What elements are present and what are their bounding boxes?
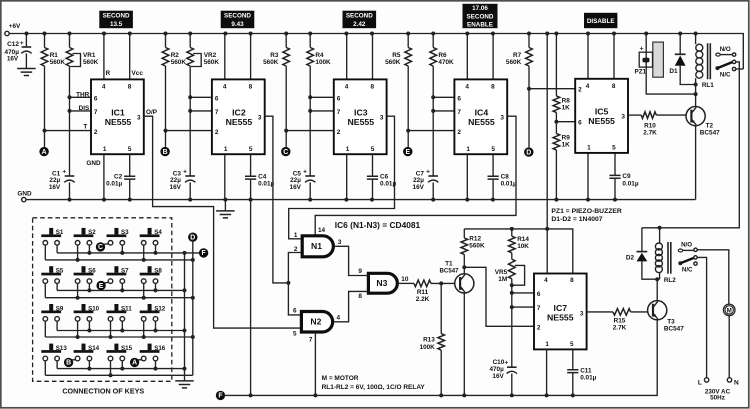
svg-text:R2: R2 — [171, 52, 180, 59]
svg-text:+6V: +6V — [9, 23, 21, 30]
N terminal — [727, 378, 731, 382]
wire: IC4 pin4 to +6V rail — [466, 34, 468, 80]
wire: trigger pin2 line IC1 — [45, 130, 92, 132]
resistor R2 560K — [165, 34, 167, 48]
svg-text:RL1-RL2 = 6V, 100Ω, 1C/O RELAY: RL1-RL2 = 6V, 100Ω, 1C/O RELAY — [322, 384, 426, 391]
svg-text:560K: 560K — [171, 59, 187, 66]
capacitor C12 (470u 16V) with ground — [25, 34, 27, 48]
svg-text:C9: C9 — [622, 173, 631, 180]
capacitor C7 (22u 16V) — [428, 175, 438, 177]
AND gate N1 (CD4081) — [302, 236, 333, 257]
svg-text:2.42: 2.42 — [353, 21, 366, 28]
switch S9 — [49, 304, 53, 311]
svg-text:C12: C12 — [7, 41, 19, 48]
wire: R9 to ground rail — [555, 150, 557, 200]
wire: S13 right terminal drop — [56, 361, 58, 369]
svg-text:560K: 560K — [204, 59, 220, 66]
wire: +6V column from rail to IC7 pin4 — [546, 34, 548, 274]
svg-text:N/C: N/C — [682, 267, 693, 274]
ground symbol near IC2 pin1 — [224, 200, 226, 211]
wire: bottom ground rail to T3 emitter — [225, 320, 657, 396]
svg-text:NE555: NE555 — [547, 313, 574, 323]
svg-text:8: 8 — [570, 277, 574, 284]
label box SECOND 2.42 — [343, 11, 377, 29]
svg-text:VR5: VR5 — [495, 269, 508, 276]
svg-text:C11: C11 — [580, 367, 592, 374]
svg-text:4: 4 — [345, 83, 349, 90]
wire: IC3 output across to N1 pin1 — [289, 116, 395, 239]
svg-text:R9: R9 — [562, 135, 571, 142]
wire: THR pin6 line IC4 — [433, 96, 454, 98]
wire: IC7 pin5 via C11 — [572, 349, 574, 369]
wire: S6 left terminal drop — [77, 283, 79, 297]
wire: branch to N1 pin2 — [288, 253, 302, 283]
svg-text:R15: R15 — [614, 318, 626, 325]
resistor R7 560K — [528, 34, 530, 48]
svg-text:4: 4 — [337, 315, 341, 322]
svg-text:VR2: VR2 — [204, 52, 217, 59]
op-amp/timer IC3 NE555 box — [334, 79, 387, 154]
svg-text:560K: 560K — [263, 59, 279, 66]
svg-text:N2: N2 — [310, 316, 321, 326]
svg-text:R7: R7 — [513, 52, 522, 59]
wire: IC1 pin8 to +6V rail — [129, 34, 131, 80]
timer IC7 NE555 box — [534, 274, 587, 350]
svg-text:4: 4 — [223, 83, 227, 90]
switch S10 — [82, 304, 86, 311]
wire: IC2 pin4 to +6V rail — [224, 34, 226, 80]
op-amp/timer IC4 NE555 box — [454, 79, 507, 154]
svg-text:9.43: 9.43 — [231, 21, 244, 28]
switch S11 — [114, 304, 118, 311]
svg-text:S7: S7 — [121, 268, 129, 275]
wire: motor to N terminal — [728, 316, 730, 378]
svg-text:4: 4 — [586, 83, 590, 90]
node C — [281, 147, 290, 156]
svg-text:560K: 560K — [469, 242, 485, 249]
wire: trigger pin2 line IC3 — [286, 130, 334, 132]
svg-text:6: 6 — [537, 291, 541, 298]
switch S1 — [49, 228, 53, 235]
svg-text:3: 3 — [338, 239, 342, 246]
svg-text:2: 2 — [337, 129, 341, 136]
svg-text:NE555: NE555 — [226, 117, 253, 127]
wire: IC4 output across to N1 pin14 — [315, 116, 516, 235]
svg-text:D: D — [526, 149, 531, 156]
pot wiper of VR5 — [512, 265, 525, 285]
svg-text:GND: GND — [86, 160, 101, 167]
wire: IC4 pin8 to +6V rail — [492, 34, 494, 80]
wire: S4 right terminal drop — [155, 245, 157, 253]
wire: S15 right terminal drop — [121, 361, 123, 369]
svg-text:5: 5 — [491, 146, 495, 153]
wire: R6 column down through THR/DIS junctions to C7 — [432, 66, 434, 176]
node E (keypad tap S7) — [96, 281, 105, 290]
wire: ground rail link down to bottom rail — [250, 200, 252, 396]
wire: IC3 pin4 to +6V rail — [346, 34, 348, 80]
svg-text:CONNECTION OF KEYS: CONNECTION OF KEYS — [62, 386, 144, 395]
wire: S5 left terminal drop — [44, 283, 46, 297]
svg-text:F: F — [201, 250, 205, 257]
node A (keypad tap S16) — [130, 358, 139, 367]
svg-text:3: 3 — [500, 115, 504, 122]
wire: keypad row 4 right-terminal bus — [57, 368, 184, 370]
svg-text:Vcc: Vcc — [132, 70, 144, 77]
switch S3 — [114, 228, 118, 235]
resistor R6 470K — [432, 34, 434, 48]
capacitor C10 (470u 16V) — [507, 366, 517, 368]
svg-text:S5: S5 — [56, 268, 64, 275]
wire: RL1 N/C to +6V rail — [736, 68, 744, 70]
svg-text:R1: R1 — [50, 52, 59, 59]
switch S14 — [82, 344, 86, 351]
svg-text:1: 1 — [103, 146, 107, 153]
transistor T3 BC547 — [648, 301, 667, 320]
svg-text:T2: T2 — [706, 122, 714, 129]
svg-text:B: B — [163, 149, 168, 156]
svg-text:THR: THR — [76, 91, 90, 98]
svg-text:4: 4 — [465, 83, 469, 90]
wire: IC7 pin1 to bottom ground rail — [546, 349, 548, 395]
svg-text:560K: 560K — [83, 59, 99, 66]
wire: +6V top rail — [9, 34, 743, 70]
wire: DIS pin7 line IC4 — [433, 110, 454, 112]
svg-text:1M: 1M — [498, 276, 507, 283]
svg-text:10: 10 — [401, 276, 409, 283]
svg-text:16V: 16V — [49, 184, 61, 191]
wire: S2 right terminal drop — [88, 245, 90, 253]
wire: S16 right terminal drop — [155, 361, 157, 369]
svg-text:8: 8 — [371, 83, 375, 90]
wire: T2 emitter to ground rail — [695, 126, 697, 200]
svg-text:C: C — [283, 149, 288, 156]
svg-text:S13: S13 — [56, 345, 68, 352]
svg-text:2: 2 — [215, 129, 219, 136]
node B (keypad tap S14) — [64, 358, 73, 367]
resistor R3 560K — [285, 34, 287, 48]
wire: N3 output to R11 — [399, 282, 414, 284]
svg-text:R11: R11 — [417, 289, 429, 296]
wire: S9 left terminal drop — [44, 321, 46, 337]
node B — [160, 147, 169, 156]
svg-text:D2: D2 — [626, 254, 635, 261]
svg-text:6: 6 — [337, 95, 341, 102]
svg-text:A: A — [42, 149, 47, 156]
svg-text:8: 8 — [491, 83, 495, 90]
wire: IC5 pin8 to rail — [613, 34, 615, 79]
wire: S11 right terminal drop — [121, 321, 123, 330]
wire: RL2 pole to L terminal — [697, 257, 706, 377]
transistor T2 BC547 — [695, 94, 697, 106]
svg-text:+: + — [640, 45, 644, 52]
wire: S7 right terminal drop — [121, 283, 123, 290]
svg-text:S12: S12 — [154, 305, 166, 312]
svg-text:R: R — [105, 70, 110, 77]
wire: R12 to T1 collector and IC7 pin2 — [463, 254, 465, 273]
svg-text:13.5: 13.5 — [110, 21, 123, 28]
node E — [403, 147, 412, 156]
svg-text:O/P: O/P — [146, 109, 158, 116]
svg-text:BC547: BC547 — [700, 130, 720, 137]
timer IC5 NE555 box — [575, 79, 628, 153]
wire: R4 column down through THR/DIS junctions to C5 — [309, 66, 311, 176]
resistor VR2 560K — [189, 34, 191, 48]
node F (keypad) — [199, 248, 208, 257]
node A — [39, 147, 48, 156]
piezo PZ1 inner electrode — [643, 58, 650, 63]
resistor R1 560K — [44, 34, 46, 48]
wire: S5 right terminal drop — [56, 283, 58, 290]
svg-text:NE555: NE555 — [348, 117, 375, 127]
svg-text:VR1: VR1 — [83, 52, 96, 59]
piezo buzzer PZ1 — [653, 42, 664, 77]
svg-text:7: 7 — [337, 109, 341, 116]
wire: DIS pin7 line IC2 — [190, 110, 212, 112]
op-amp/timer IC1 NE555 box — [91, 79, 144, 154]
svg-text:N: N — [734, 379, 739, 386]
svg-text:S15: S15 — [121, 345, 133, 352]
svg-text:D1-D2 = 1N4007: D1-D2 = 1N4007 — [551, 216, 602, 223]
wire: N2 output to N3 pin8 — [333, 291, 369, 321]
wire: trigger pin2 line IC4 — [408, 130, 454, 132]
svg-text:3: 3 — [380, 115, 384, 122]
svg-text:0.01µ: 0.01µ — [258, 181, 274, 188]
wire: S14 right terminal drop — [88, 361, 90, 369]
svg-text:C2: C2 — [114, 174, 123, 181]
L terminal — [704, 378, 708, 382]
svg-text:8: 8 — [358, 293, 362, 300]
resistor R12 560K — [463, 229, 465, 238]
svg-text:2.7K: 2.7K — [643, 130, 657, 137]
wire: R2 to pin2 line and node B — [165, 66, 167, 147]
wire: keypad D vertical — [192, 242, 194, 375]
resistor R5 560K — [407, 34, 409, 48]
capacitor C3 (22u 16V) — [185, 175, 195, 177]
wire: IC7 pin6 line — [512, 292, 534, 294]
wire: S12 left terminal drop — [143, 321, 145, 337]
wire: keypad row 3 left-terminal bus — [45, 336, 193, 338]
svg-text:RL1: RL1 — [702, 82, 714, 89]
svg-text:R13: R13 — [423, 337, 435, 344]
pot wiper of VR1 — [70, 54, 80, 67]
label box SECOND 13.5 — [99, 11, 133, 29]
wire: S11 left terminal drop — [110, 321, 112, 337]
svg-text:R5: R5 — [392, 52, 401, 59]
svg-text:6: 6 — [457, 95, 461, 102]
wire: VR1 column down through THR/DIS junctions to C1 — [69, 66, 71, 176]
wire: VR2 column down through THR/DIS junctions to C3 — [189, 66, 191, 176]
resistor R4 100K — [309, 34, 311, 48]
svg-text:7: 7 — [309, 337, 313, 344]
motor M — [723, 304, 735, 316]
wire: R3 to pin2 line and node C — [285, 66, 287, 147]
diode D1 1N4007 — [679, 34, 681, 55]
svg-text:1: 1 — [587, 145, 591, 152]
svg-text:6: 6 — [578, 120, 582, 127]
wire: IC2 output down to gates — [265, 116, 289, 283]
label box SECOND 9.43 — [221, 11, 255, 29]
wire: RL2 N/O contact to motor — [697, 250, 729, 304]
svg-text:7: 7 — [215, 109, 219, 116]
svg-text:50Hz: 50Hz — [710, 395, 725, 402]
svg-text:D: D — [190, 235, 195, 242]
resistor R8 1K — [555, 34, 557, 97]
capacitor C9 (0.01u) — [609, 175, 620, 178]
wire: keypad row 3 right-terminal bus — [57, 330, 184, 332]
wire: N1 output to N3 pin9 — [335, 246, 369, 275]
switch S15 — [114, 344, 118, 351]
AND gate N2 (CD4081) — [301, 312, 332, 333]
svg-text:N/C: N/C — [720, 72, 731, 79]
pot wiper of VR2 — [191, 54, 201, 67]
capacitor C11 (0.01u) — [567, 370, 578, 373]
wire: R5 to pin2 line and node E — [407, 66, 409, 147]
svg-text:NE555: NE555 — [105, 117, 132, 127]
svg-text:+: + — [20, 40, 24, 47]
wire: N2 pin7 to bottom ground rail — [314, 333, 316, 396]
svg-text:A: A — [132, 360, 137, 367]
svg-text:N/O: N/O — [681, 241, 692, 248]
wire: IC1 output down and across to N2 pin5 — [144, 116, 302, 328]
svg-text:+: + — [426, 168, 430, 175]
relay coil RL2 — [659, 228, 661, 243]
svg-text:S9: S9 — [56, 305, 64, 312]
svg-text:8: 8 — [612, 83, 616, 90]
svg-text:GND: GND — [17, 190, 32, 197]
wire: DIS pin7 line IC1 — [70, 110, 92, 112]
svg-text:10K: 10K — [517, 243, 529, 250]
svg-text:9: 9 — [358, 268, 362, 275]
wire: DIS pin7 line IC3 — [310, 110, 334, 112]
svg-text:0.01µ: 0.01µ — [106, 181, 122, 188]
resistor R10 2.7K — [628, 114, 641, 116]
svg-text:ENABLE: ENABLE — [467, 21, 493, 28]
svg-text:L: L — [698, 379, 702, 386]
switch S6 — [82, 266, 86, 273]
pot VR5 1M — [511, 253, 513, 259]
svg-text:1: 1 — [545, 341, 549, 348]
resistor R15 2.7K — [613, 309, 631, 316]
wire: ground rail — [26, 199, 695, 201]
svg-text:560K: 560K — [50, 59, 66, 66]
wire: branch to N2 pin6 — [288, 283, 301, 315]
switch S8 — [148, 266, 152, 273]
wire: IC1 pin4 to +6V rail — [103, 34, 105, 80]
svg-text:S4: S4 — [154, 229, 162, 236]
svg-text:C4: C4 — [258, 174, 267, 181]
wire: S9 right terminal drop — [56, 321, 58, 330]
svg-text:100K: 100K — [420, 344, 436, 351]
svg-text:F: F — [218, 393, 222, 400]
svg-text:560K: 560K — [385, 59, 401, 66]
switch S12 — [148, 304, 152, 311]
wire: R15 to T3 base — [631, 311, 648, 313]
wire: IC5 pin2 line — [529, 88, 575, 90]
svg-text:C8: C8 — [501, 174, 510, 181]
wire: S6 right terminal drop — [88, 283, 90, 290]
diode D2 1N4007 — [641, 228, 643, 252]
wire: keypad row 1 right-terminal bus — [57, 252, 199, 254]
resistor R14 10K — [511, 229, 513, 236]
wire: S2 left terminal drop — [77, 245, 79, 260]
svg-text:D1: D1 — [669, 68, 678, 75]
svg-text:S11: S11 — [121, 305, 132, 312]
node D — [524, 147, 533, 156]
svg-text:5: 5 — [612, 145, 616, 152]
svg-text:16V: 16V — [7, 55, 19, 62]
wire: IC4 pin5 via C8 — [492, 154, 494, 176]
svg-text:560K: 560K — [506, 59, 522, 66]
wire: S1 right terminal drop — [56, 245, 58, 253]
wire: S8 left terminal drop — [143, 283, 145, 297]
svg-text:5: 5 — [128, 146, 132, 153]
svg-text:SECOND: SECOND — [103, 12, 130, 19]
svg-text:17.06: 17.06 — [472, 5, 488, 12]
wire: R11 to T1 base — [431, 282, 455, 284]
wire: S4 left terminal drop — [143, 245, 145, 260]
svg-text:6: 6 — [215, 95, 219, 102]
capacitor C2 (0.01u) — [124, 176, 135, 179]
svg-text:R8: R8 — [562, 97, 571, 104]
svg-text:S10: S10 — [88, 305, 100, 312]
wire: T3 collector to RL2/D2 junction — [656, 279, 658, 300]
svg-text:SECOND: SECOND — [467, 13, 494, 20]
switch S7 — [114, 266, 118, 273]
wire: IC7 pin3 to R15 — [587, 311, 613, 313]
resistor R11 2.2K — [414, 280, 431, 287]
svg-text:E: E — [405, 149, 410, 156]
wire: IC3 pin8 to +6V rail — [372, 34, 374, 80]
svg-text:0.01µ: 0.01µ — [622, 180, 638, 187]
wire: keypad F/ground vertical — [184, 253, 186, 381]
wire: IC3 pin5 via C6 — [372, 154, 374, 176]
svg-text:+: + — [62, 168, 66, 175]
node C (keypad tap S3) — [96, 242, 105, 251]
svg-text:470K: 470K — [438, 59, 454, 66]
svg-text:R4: R4 — [315, 52, 324, 59]
svg-text:S8: S8 — [154, 268, 162, 275]
wire: IC2 pin8 to +6V rail — [250, 34, 252, 80]
wire: THR pin6 line IC1 — [70, 96, 92, 98]
svg-text:6: 6 — [94, 95, 98, 102]
wire: +6V distribution to R12 R14 and IC7 pin8 — [464, 229, 573, 274]
wire: IC2 pin1 to ground — [224, 154, 226, 199]
wire: PZ1 column from rail to T2 collector line — [646, 34, 695, 95]
svg-text:14: 14 — [318, 227, 326, 234]
wire: S10 right terminal drop — [88, 321, 90, 330]
svg-text:R14: R14 — [517, 236, 529, 243]
svg-text:M = MOTOR: M = MOTOR — [322, 375, 359, 382]
wire: R1 to pin2 line and node A — [44, 66, 46, 147]
svg-text:1K: 1K — [562, 104, 571, 111]
svg-text:3: 3 — [621, 114, 625, 121]
svg-text:2: 2 — [457, 129, 461, 136]
svg-text:6: 6 — [293, 308, 297, 315]
svg-text:100K: 100K — [315, 59, 331, 66]
svg-text:BC547: BC547 — [440, 268, 460, 275]
svg-text:5: 5 — [293, 331, 297, 338]
wire: RL1 pole down to RL2 feed — [642, 62, 739, 228]
switch S13 — [49, 344, 53, 351]
wire: S1 left terminal drop — [44, 245, 46, 260]
svg-text:2.2K: 2.2K — [416, 296, 430, 303]
svg-text:RL2: RL2 — [664, 277, 676, 284]
svg-text:7: 7 — [457, 109, 461, 116]
svg-text:4: 4 — [544, 277, 548, 284]
node D (keypad) — [188, 233, 197, 242]
svg-text:+: + — [183, 168, 187, 175]
svg-text:C6: C6 — [380, 174, 389, 181]
